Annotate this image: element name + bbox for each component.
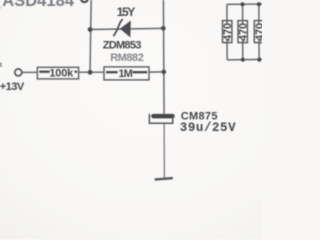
svg-text:+13V: +13V <box>0 81 25 93</box>
svg-text:470: 470 <box>238 23 250 41</box>
svg-text:470: 470 <box>222 23 234 41</box>
svg-text:RM882: RM882 <box>110 52 144 64</box>
svg-text:15Y: 15Y <box>117 5 135 19</box>
svg-text:ZDM853: ZDM853 <box>103 40 141 52</box>
svg-text:470: 470 <box>254 23 262 41</box>
svg-text:100k: 100k <box>49 67 74 79</box>
svg-text:ASD4184: ASD4184 <box>2 0 75 10</box>
svg-text:1M: 1M <box>118 68 132 80</box>
svg-text:39u/25V: 39u/25V <box>180 121 236 135</box>
